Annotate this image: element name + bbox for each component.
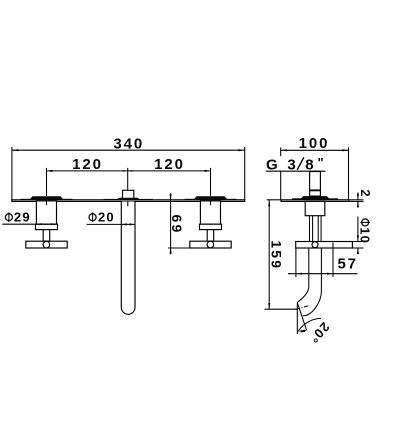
svg-text:": " (318, 155, 325, 170)
svg-text:57: 57 (337, 256, 358, 273)
svg-text:10: 10 (358, 227, 373, 244)
svg-text:29: 29 (14, 210, 31, 225)
svg-text:159: 159 (269, 240, 285, 270)
svg-text:340: 340 (113, 136, 144, 153)
svg-text:100: 100 (299, 135, 330, 152)
svg-text:120: 120 (154, 156, 185, 173)
svg-text:2: 2 (358, 189, 373, 197)
svg-text:120: 120 (72, 156, 103, 173)
svg-text:20: 20 (98, 210, 115, 225)
svg-text:69: 69 (169, 215, 185, 235)
